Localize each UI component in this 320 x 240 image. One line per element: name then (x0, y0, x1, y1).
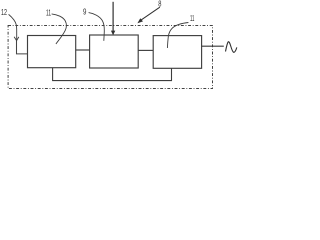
block 11 (left) (28, 36, 76, 68)
output sine squiggle (226, 42, 237, 53)
label 11 (right) (190, 14, 195, 23)
svg-text:8: 8 (158, 0, 162, 8)
input arrow into block 2 top (112, 2, 114, 32)
wire block1 to block2 (76, 49, 90, 51)
svg-text:9: 9 (83, 8, 87, 17)
label 12 (1, 8, 7, 17)
leader arrow from label 12 (9, 14, 17, 40)
svg-text:12: 12 (1, 8, 7, 17)
svg-text:11: 11 (190, 14, 195, 23)
dashed enclosure 12 (8, 26, 212, 89)
block 9 (middle) (90, 35, 139, 68)
label 8 (158, 0, 162, 8)
wire output from block3 through border (202, 45, 224, 47)
wire feedback bottom path (53, 68, 172, 81)
svg-text:11: 11 (46, 8, 51, 17)
leader from label 11 left into block 1 (52, 14, 67, 44)
leader from label 9 into block 2 (89, 13, 105, 41)
wire input vertical+horizontal into left block (17, 41, 28, 54)
leader arrow from label 8 to enclosure border (141, 7, 160, 20)
wire block2 to block3 (138, 49, 153, 51)
leader from label 11 right into block 3 (167, 23, 188, 49)
block 11 (right) (153, 36, 201, 69)
label 9 (83, 8, 87, 17)
label 11 (left) (46, 8, 51, 17)
